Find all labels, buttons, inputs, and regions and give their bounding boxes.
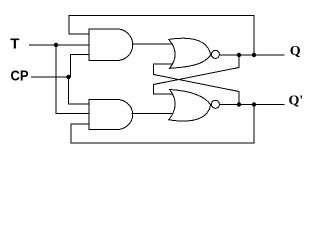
wire CP up to top AND input 3: [71, 55, 90, 78]
wire bottom AND output to bottom NOR input 2: [132, 113, 174, 115]
NOR gate G4 bubble: [211, 100, 219, 108]
wire CP down to bottom AND input 1: [69, 77, 90, 104]
svg-text:T: T: [10, 35, 19, 52]
node Q feedback junction dot: [252, 53, 256, 57]
wire Q' output line: [220, 104, 285, 106]
wire Q output line: [220, 54, 285, 56]
wire cross-couple Q' dot up-slant to top NOR input 2: [154, 64, 240, 105]
AND gate G1 top: [89, 29, 133, 61]
NOR gate G3 top (OR body): [169, 38, 211, 68]
wire T horizontal: [29, 44, 89, 46]
svg-text:Q: Q: [290, 44, 301, 59]
node Q' feedback junction dot: [252, 102, 256, 106]
node CP junction dot: [66, 75, 70, 79]
wire T vertical down to bottom gate: [56, 45, 89, 114]
AND gate G2 bottom: [89, 100, 133, 130]
node T junction dot: [54, 43, 58, 47]
svg-text:Q': Q': [289, 94, 304, 109]
node Q cross junction dot: [237, 53, 241, 57]
node Q' cross junction dot: [237, 102, 241, 106]
wire CP horizontal: [31, 76, 69, 78]
wire feedback Q to top AND input 1 (top rail): [69, 16, 254, 56]
NOR gate G3 bubble: [211, 50, 219, 58]
wire cross-couple Q dot down-slant to bottom NOR input 1: [154, 55, 240, 94]
wire top AND output to top NOR input 1: [133, 43, 174, 45]
NOR gate G4 bottom (OR body): [169, 90, 211, 122]
wire feedback Q' to bottom AND input 3 (bottom rail): [71, 105, 254, 144]
svg-text:CP: CP: [11, 67, 29, 84]
